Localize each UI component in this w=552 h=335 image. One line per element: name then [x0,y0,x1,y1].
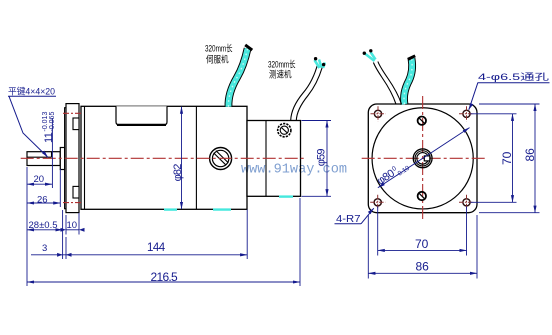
motor body [81,106,247,209]
bottom assembly screw [418,192,426,200]
cable end cap [245,45,252,50]
joint line rear bell [195,106,197,209]
dimension phi59 [302,120,332,122]
dimension phi82 [181,107,183,209]
svg-text:www.91way.com: www.91way.com [241,162,347,178]
svg-text:320mm长: 320mm长 [268,59,296,70]
svg-text:11: 11 [43,132,55,143]
dimension 86 right [479,103,540,105]
corner hole top-left [371,106,386,121]
center shaft circles [413,149,432,168]
keyway [424,156,430,161]
cable: servo leads (side view, cyan) [228,45,252,107]
svg-text:4-φ6.5通孔: 4-φ6.5通孔 [478,72,549,82]
shaft [27,152,60,166]
flange boss detail top [73,118,79,130]
svg-text:26: 26 [37,195,48,206]
svg-text:86: 86 [416,260,430,274]
dimension 144 [246,210,248,259]
front centerline vertical [422,96,424,221]
svg-text:φ82: φ82 [172,164,184,182]
node: hidden hole centerline top (flange) [63,112,82,114]
svg-text:测速机: 测速机 [269,69,292,80]
dimension 86 bottom [367,215,369,279]
cable: front cyan [404,56,415,104]
pilot boss [65,108,67,209]
housing joint line [265,121,267,197]
dimension phi80 diagonal [378,128,470,188]
dimension 3 [65,237,67,259]
nameplate recess [116,106,167,125]
dimension 26 [59,169,61,207]
small knurled screw [278,124,291,137]
tacho tip dots [314,57,317,60]
svg-text:伺服机: 伺服机 [206,54,229,65]
svg-text:144: 144 [147,242,166,254]
rear tacho housing [247,121,301,197]
svg-text:320mm长: 320mm长 [205,43,233,54]
svg-text:216.5: 216.5 [151,270,179,284]
joint line front [84,106,86,209]
front flange plate [66,104,79,213]
svg-text:70: 70 [500,151,514,165]
node: hidden hole centerline bottom (flange) [63,202,82,204]
dimension 70 bottom [377,207,379,256]
key flat 4x4x20 on shaft [27,156,52,158]
corner hole bottom-left [370,195,385,210]
svg-text:86: 86 [523,148,537,162]
svg-text:平键4×4×20: 平键4×4×20 [8,86,55,97]
front white cable tip strands [366,52,376,61]
front centerline horizontal [362,157,487,159]
cyan dash marks on body bottom [164,197,293,210]
svg-text:28±0.5: 28±0.5 [29,220,58,231]
brush cap screw [210,148,232,170]
shaft shoulder ring [60,148,64,170]
cable: tacho leads (side view, thin) [291,64,323,121]
dimension 70 right [471,113,517,115]
tacho cable tip strands [315,60,325,69]
corner hole bottom-right [459,195,474,210]
svg-text:70: 70 [415,237,429,251]
wire: main horizontal centerline of side view [21,157,306,159]
left extension line [26,167,28,286]
front view square flange [368,104,477,213]
corner hole top-right [459,106,474,121]
svg-text:3: 3 [42,243,47,254]
svg-text:20: 20 [34,174,45,185]
dimension 11 -0.013/-0.065 (rotated) [42,112,56,143]
dimension 28±0.5 [62,210,64,259]
cable: front white pair [373,62,401,105]
dimension 20 [27,183,52,185]
flange boss detail bottom [73,186,79,198]
svg-text:-0.013: -0.013 [42,112,49,132]
svg-text:10: 10 [67,220,78,231]
pilot circle phi80 [372,108,473,209]
dimension 10 [65,215,67,235]
top assembly screw [418,117,426,125]
dimension 216.5 [299,198,301,286]
